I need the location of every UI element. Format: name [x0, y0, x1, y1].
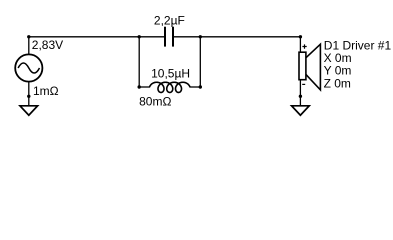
- inductor L1 coil: [150, 82, 191, 92]
- svg-text:1mΩ: 1mΩ: [33, 84, 59, 98]
- wire top net: source node to node A: [29, 36, 139, 38]
- wire node A vertical: [138, 37, 140, 87]
- capacitor C1 right plate: [172, 27, 174, 47]
- node B top junction dot: [199, 35, 202, 38]
- node B bottom junction dot: [199, 85, 202, 88]
- svg-text:2,2µF: 2,2µF: [154, 14, 185, 28]
- node speaker top junction dot: [299, 35, 302, 38]
- wire node B to speaker plus terminal: [200, 36, 300, 38]
- speaker D1 driver body rectangle: [299, 52, 306, 79]
- wire node B vertical: [199, 37, 201, 87]
- svg-text:10,5µH: 10,5µH: [151, 67, 190, 81]
- voltage source V1 sine wave: [18, 63, 39, 73]
- wire source bottom lead: [28, 82, 30, 97]
- node source top junction dot: [27, 35, 30, 38]
- speaker D1 plus pin label: [302, 44, 306, 48]
- ground symbol right: [292, 106, 310, 115]
- node speaker ground junction dot: [299, 95, 302, 98]
- node A bottom junction dot: [138, 85, 141, 88]
- wire speaker plus lead: [299, 37, 301, 53]
- wire source top lead: [28, 37, 30, 55]
- capacitor C1 left plate: [164, 27, 166, 47]
- node A top junction dot: [138, 35, 141, 38]
- wire capacitor right plate to node B: [174, 36, 200, 38]
- wire speaker minus lead: [299, 80, 301, 96]
- svg-text:80mΩ: 80mΩ: [139, 95, 171, 109]
- voltage source V1 circle: [15, 54, 42, 81]
- wire node A to capacitor left plate: [139, 36, 164, 38]
- ground symbol left: [20, 106, 38, 115]
- svg-text:2,83V: 2,83V: [32, 38, 63, 52]
- wire inductor left lead: [139, 86, 150, 88]
- svg-text:Z 0m: Z 0m: [324, 76, 351, 90]
- wire inductor right lead: [190, 86, 201, 88]
- speaker D1 minus pin label: [302, 83, 305, 85]
- node source ground junction dot: [27, 95, 30, 98]
- wire ground lead right: [299, 96, 301, 106]
- wire ground lead left: [28, 96, 30, 106]
- speaker D1 cone: [306, 44, 320, 90]
